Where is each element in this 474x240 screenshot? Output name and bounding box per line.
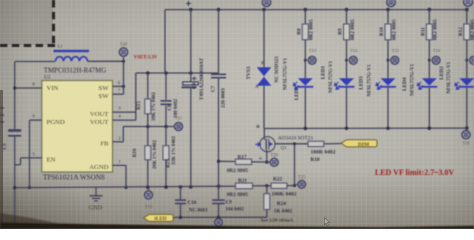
pin 8 VIN wire — [13, 82, 42, 90]
test point above bus at TVS column — [262, 0, 270, 7]
wire left rail below GND bus to bottom edge — [14, 188, 16, 229]
wire GND bus — [13, 185, 235, 190]
sheet border dashed lines — [0, 0, 55, 46]
test point T20 — [119, 42, 128, 61]
pin 7 SW wire — [113, 61, 124, 94]
test point T24 — [215, 219, 223, 227]
LED LED2 — [439, 60, 474, 128]
test point T25 — [295, 175, 307, 188]
inductor L1 — [44, 43, 106, 74]
capacitor C3 — [2, 129, 21, 149]
resistor R18 — [308, 141, 341, 163]
capacitor C9 — [212, 200, 244, 219]
capacitor C10 — [175, 187, 208, 217]
pin 1 AGND wire — [113, 159, 128, 189]
pin 6 SW wire — [113, 80, 126, 88]
annotation Iset — [261, 218, 294, 223]
net label iLED — [144, 214, 176, 222]
capacitor C7 — [210, 10, 226, 201]
test point T14 on LED1 column — [345, 48, 358, 64]
resistor R9 — [338, 10, 356, 61]
resistor R8 — [296, 10, 314, 61]
capacitor C8 — [161, 73, 180, 127]
resistor R22 — [267, 177, 297, 198]
LED LED5 — [283, 58, 313, 129]
resistor R12 — [458, 10, 474, 61]
wire R22 to gate — [294, 144, 296, 186]
net label text LED VF limit — [375, 168, 454, 177]
resistor R16 — [132, 127, 158, 188]
diode TVS3 — [246, 10, 280, 129]
wire VOUT rail — [136, 71, 219, 75]
test point T18 at cathode bus end — [462, 131, 470, 146]
plus polarity mark — [186, 1, 191, 6]
wire input rail from L1 left down the left edge — [15, 62, 55, 188]
LED LED4 — [402, 60, 437, 128]
test point T13 on LED5 column — [304, 48, 317, 64]
net label VSET:3.3V — [134, 56, 158, 61]
test point T16 on LED4 column — [428, 48, 441, 64]
resistor R15 — [136, 73, 157, 127]
test point T17 on LED2 column — [465, 56, 474, 64]
LED LED3 — [358, 60, 396, 128]
net label DIM — [341, 140, 377, 148]
test point T26 — [265, 153, 279, 166]
wire gate net — [275, 142, 308, 145]
capacitor C4 — [182, 10, 206, 187]
pin 3 VOUT wire — [113, 106, 136, 112]
op-amp U2 TPS61021A body — [42, 74, 113, 181]
resistor R21 — [227, 178, 253, 198]
photo bottom dark band — [0, 213, 474, 229]
pin 5 EN wire — [15, 152, 42, 165]
mouse cursor — [324, 218, 329, 226]
test point above bus at LED3 column — [387, 0, 395, 7]
photo grain — [0, 0, 1, 1]
wire R21 right to Q3 source — [253, 184, 269, 187]
test point T19 — [145, 187, 153, 209]
pin 9 PGND wire — [28, 114, 42, 189]
resistor R24 — [264, 186, 293, 218]
resistor R23 — [163, 127, 177, 188]
resistor R10 — [379, 10, 397, 61]
pin 2 FB wire — [113, 125, 175, 142]
wire iLED bottom net — [176, 216, 267, 219]
test point above bus at LED2 column — [464, 0, 473, 6]
off-sheet ticks on left edge — [0, 108, 4, 122]
resistor R11 — [420, 10, 438, 61]
test point T15 on LED3 column — [387, 48, 400, 64]
wire top VOUT bus — [165, 8, 469, 12]
ground GND symbol — [89, 188, 103, 212]
test point T11 — [175, 116, 183, 131]
wire L1 right to SW node — [88, 60, 126, 63]
pin 4 VOUT wire — [113, 73, 136, 120]
LED LED1 — [321, 60, 355, 128]
transistor Q3 — [255, 125, 313, 162]
resistor R17 — [217, 154, 267, 174]
wire LED cathode bus — [264, 126, 469, 130]
wire bus left drop to VOUT rail — [164, 10, 166, 73]
